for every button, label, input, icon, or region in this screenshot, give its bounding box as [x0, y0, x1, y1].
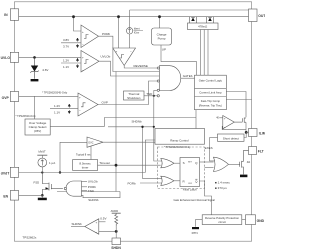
- or gate FLT: [214, 157, 229, 171]
- node dVdT junction: [41, 171, 43, 173]
- node TSD junction: [153, 95, 155, 97]
- wire REVERSE out: [124, 66, 157, 69]
- current source IdVdT: [38, 158, 47, 167]
- svg-text:OVC: OVC: [88, 141, 93, 144]
- ramp control box: [155, 129, 205, 145]
- svg-text:PORb: PORb: [102, 32, 111, 36]
- svg-text:CLR: CLR: [188, 183, 193, 185]
- pin FLT: [249, 147, 257, 155]
- wire nor stub UVLOb: [82, 181, 88, 183]
- pin SHDN: [112, 238, 121, 245]
- wire OUT sense drop to Isrc: [129, 10, 131, 28]
- wire gate drive 1: [200, 30, 202, 76]
- svg-text:IN: IN: [4, 13, 8, 17]
- wire EXES: [210, 138, 216, 161]
- wire IN to PORb: [74, 17, 82, 31]
- svg-text:FLT: FLT: [258, 149, 265, 153]
- svg-text:1.1V: 1.1V: [63, 65, 69, 69]
- svg-text:Short detect: Short detect: [223, 137, 239, 141]
- pin UVLO: [10, 52, 18, 62]
- svg-text:EN: EN: [3, 195, 8, 199]
- text layer part 2: small net and value labels: [42, 26, 193, 114]
- node shdn: [115, 230, 118, 233]
- wire stack to sense fet: [226, 92, 246, 118]
- wire UVLO pin net: [19, 56, 81, 58]
- wire shdn comp out: [71, 226, 85, 228]
- svg-text:IGsv: IGsv: [134, 30, 140, 34]
- wire timeout-to-gate low: [57, 191, 120, 193]
- svg-text:SHDNb: SHDNb: [72, 222, 83, 226]
- power FETs Q1 Q2: [188, 17, 219, 30]
- node R bus junction: [141, 126, 143, 128]
- svg-text:■ 1.4 msec: ■ 1.4 msec: [215, 180, 230, 184]
- transistor FSD discharge: [42, 173, 63, 196]
- node ILIM: [245, 131, 248, 134]
- svg-text:UVLO: UVLO: [1, 56, 11, 60]
- svg-text:* TPS26620/545-Only: * TPS26620/545-Only: [42, 90, 68, 94]
- wire OVP pin net: [19, 95, 78, 97]
- wire 0.5V ref stub: [99, 221, 106, 223]
- wire node to pin: [115, 231, 117, 238]
- wire OVC out: [103, 141, 155, 143]
- wire opamp feedback: [222, 126, 246, 130]
- bubble reverse input: [157, 67, 159, 69]
- svg-text:−: −: [224, 125, 226, 129]
- bubble tsd input: [157, 95, 159, 97]
- wire shdn minus: [99, 230, 116, 232]
- wire charge pump out: [161, 45, 197, 75]
- comparator SHDN: [85, 219, 99, 234]
- pin OVP: [10, 92, 18, 102]
- svg-text:(Reverse, Trip Thru): (Reverse, Trip Thru): [199, 103, 222, 107]
- dashed box fault latch option: [158, 147, 205, 189]
- wire latch Q out: [200, 161, 214, 163]
- node UVLO junction: [33, 56, 36, 59]
- short detect box: [218, 134, 245, 141]
- wire box to RTN: [196, 220, 203, 227]
- transistor FLT open drain: [240, 151, 249, 175]
- node rail junctions: [72, 15, 75, 18]
- wire clamp to ramp top bus: [50, 118, 196, 127]
- pin dVdT: [10, 167, 18, 177]
- svg-text:EXES: EXES: [205, 146, 213, 150]
- wire short detect out: [210, 137, 218, 139]
- svg-text:TSD: TSD: [146, 92, 153, 96]
- wire rail to charge pump: [159, 17, 161, 28]
- node EN junction: [41, 194, 44, 197]
- wire IN rail: [19, 16, 249, 18]
- wire fast-trip vout sense: [226, 99, 251, 101]
- or gate S: [161, 159, 174, 168]
- svg-text:Ramp Control: Ramp Control: [170, 139, 189, 143]
- svg-text:Pump: Pump: [158, 37, 166, 41]
- svg-text:Gate Enhancement Removal Signa: Gate Enhancement Removal Signal: [174, 198, 216, 202]
- wire resistor to node: [115, 227, 117, 232]
- svg-text:1.2V: 1.2V: [63, 59, 69, 63]
- wire nor stub TSD: [82, 189, 88, 191]
- svg-text:Fast-Trip Comp: Fast-Trip Comp: [201, 99, 221, 103]
- svg-text:4.6V: 4.6V: [42, 68, 48, 72]
- svg-text:−: −: [96, 230, 98, 234]
- resistor pullup: [115, 213, 118, 226]
- over voltage clamp select box: [25, 119, 50, 135]
- svg-text:Shutdown: Shutdown: [127, 96, 141, 100]
- wire PORb out: [99, 36, 160, 71]
- wire nor stub PORb: [82, 186, 88, 188]
- wire OVP threshold: [50, 108, 78, 110]
- wire gate drive mid: [203, 30, 205, 76]
- svg-text:−: −: [82, 68, 84, 72]
- svg-text:SHDN: SHDN: [111, 246, 121, 250]
- wire bus to bubble: [154, 89, 157, 91]
- svg-text:timer: timer: [82, 166, 89, 170]
- bubble ovp input: [157, 80, 159, 82]
- wire UVLOb threshold: [61, 62, 81, 64]
- svg-text:GND: GND: [257, 219, 265, 223]
- svg-text:UVLOb: UVLOb: [88, 180, 98, 184]
- wire stack to ramp: [195, 110, 197, 129]
- current source Isrc (reverse offset): [126, 28, 132, 34]
- svg-text:Ident: Ident: [134, 26, 140, 30]
- pin ILIM: [249, 129, 258, 137]
- wire UVLOb out: [99, 61, 159, 76]
- svg-text:−: −: [82, 43, 84, 47]
- text layer part 3: box texts: [29, 32, 240, 223]
- transistor sense fet: [234, 118, 246, 123]
- svg-text:+: +: [79, 95, 81, 99]
- svg-text:3.8V: 3.8V: [63, 38, 69, 42]
- ground (FSD): [38, 198, 47, 201]
- wire dVdT riser to ramp: [145, 140, 155, 173]
- svg-text:0.5V: 0.5V: [100, 216, 106, 220]
- wire ILIM pin: [246, 131, 248, 133]
- charge pump U1: [152, 28, 172, 45]
- svg-text:Gate Control Logic: Gate Control Logic: [199, 79, 223, 83]
- svg-text:* TPS26620/2640 Only: * TPS26620/2640 Only: [164, 145, 191, 149]
- svg-text:GATEb: GATEb: [183, 74, 193, 78]
- svg-text:UP: UP: [162, 48, 166, 52]
- wire box to GND pin: [242, 219, 246, 221]
- reverse polarity protection box: [202, 215, 242, 225]
- node timeout junction: [115, 164, 118, 167]
- op amp current limit: [223, 116, 235, 129]
- wire latch R bus: [143, 127, 163, 179]
- svg-text:SHDNb: SHDNb: [132, 120, 143, 124]
- svg-text:S: S: [183, 161, 185, 165]
- svg-text:1.2V: 1.2V: [54, 104, 60, 108]
- wire nor stub SHDNb: [81, 192, 120, 198]
- wire OVP out: [98, 81, 157, 105]
- comparator OVP: [78, 93, 98, 116]
- wire OVC to timer: [90, 146, 92, 160]
- wire EN pin net: [19, 194, 43, 196]
- svg-text:SHDNb: SHDNb: [88, 198, 99, 202]
- label Isrc fraction bar: [134, 29, 143, 31]
- pin GND: [246, 215, 256, 225]
- bubble nor output: [64, 187, 66, 189]
- svg-text:OUT: OUT: [258, 14, 265, 18]
- wire to ground: [41, 195, 43, 197]
- svg-text:FSD: FSD: [34, 181, 40, 185]
- ground (RTN): [192, 227, 199, 229]
- svg-text:+: +: [82, 55, 84, 59]
- wire SHDNb horizontal: [108, 126, 154, 128]
- svg-text:1.1V: 1.1V: [54, 111, 60, 115]
- wire Isrc to dVdT node: [41, 167, 43, 173]
- svg-text:* TPS26630-Only: * TPS26630-Only: [16, 114, 37, 118]
- svg-text:(45V): (45V): [34, 129, 41, 133]
- svg-text:+: +: [96, 220, 98, 224]
- wire gate drive 2: [207, 30, 209, 76]
- comparator REVERSE: [113, 48, 136, 66]
- svg-text:REVERSE: REVERSE: [134, 64, 148, 68]
- svg-text:TPS2662x: TPS2662x: [22, 235, 37, 239]
- node SHDNb junction: [153, 126, 155, 128]
- wire opamp plus stub: [219, 117, 223, 119]
- wire latch Q to flt or: [205, 167, 214, 169]
- svg-text:■ 373 μs: ■ 373 μs: [215, 186, 227, 190]
- svg-text:−: −: [79, 108, 81, 112]
- svg-text:+: +: [82, 30, 84, 34]
- node PORb bus: [115, 72, 117, 192]
- wire Isrc to REVERSE: [129, 34, 131, 48]
- thermal shutdown box: [124, 91, 145, 100]
- svg-text:+: +: [224, 116, 226, 120]
- comparator UVLOb: [81, 51, 99, 73]
- svg-text:Fault Latch: Fault Latch: [183, 187, 197, 191]
- wire PORb threshold: [61, 42, 81, 44]
- wire SHDNb bus vertical: [154, 90, 162, 161]
- svg-text:OVP: OVP: [102, 100, 108, 104]
- svg-text:Current Limit Amp: Current Limit Amp: [199, 91, 222, 95]
- svg-text:OVP: OVP: [2, 96, 10, 100]
- svg-text:AVDD: AVDD: [111, 209, 119, 213]
- or gate R: [161, 176, 174, 185]
- svg-text:ILIM: ILIM: [259, 132, 265, 136]
- wire GATEb: [181, 77, 195, 79]
- svg-text:Timeout: Timeout: [99, 161, 110, 165]
- and gate gate-logic: [159, 66, 180, 91]
- node OVC riser: [59, 171, 61, 173]
- wire S to latch: [174, 162, 180, 164]
- supply AVDD shdn: [112, 212, 121, 214]
- latch U2: [180, 158, 200, 187]
- wire stub R PORb: [140, 182, 162, 184]
- svg-text:4Ω: 4Ω: [247, 160, 250, 164]
- qbar overline: [195, 178, 197, 180]
- nor gate dvdt-disable: [66, 181, 82, 196]
- svg-text:TSD: TSD: [88, 189, 95, 193]
- pin OUT: [249, 9, 258, 22]
- wire latch Qb out: [200, 181, 212, 215]
- ground (FLT fet): [240, 175, 247, 178]
- comparator OVC: [87, 137, 103, 147]
- zener 4.6V: [30, 57, 38, 78]
- text layer part 1: [1, 13, 267, 250]
- pin EN: [10, 191, 18, 201]
- wire OVP to clamp box: [34, 96, 36, 119]
- wire flt or out: [229, 163, 240, 165]
- comparator PORb: [81, 25, 99, 48]
- pin IN: [10, 9, 18, 20]
- bubble shdnb-bus input: [157, 89, 159, 91]
- svg-text:RTN: RTN: [192, 231, 198, 235]
- threshold arrows (filled): [68, 38, 79, 114]
- svg-text:IdVdT: IdVdT: [38, 150, 46, 154]
- svg-text:−: −: [130, 50, 132, 54]
- wire TSD: [144, 95, 157, 97]
- ground (zener): [31, 79, 39, 81]
- wire OVC upper input from dVdT riser: [60, 142, 87, 172]
- wire R to latch: [174, 180, 180, 182]
- wire OUT sense top: [130, 9, 249, 11]
- svg-text:1 μA: 1 μA: [49, 161, 55, 165]
- gate control logic stack: [195, 75, 227, 110]
- svg-text:+: +: [116, 50, 118, 54]
- wire IN to REVERSE: [118, 17, 120, 48]
- wire sense fet to ILIM node: [245, 122, 247, 132]
- svg-text:Typical 8 ms: Typical 8 ms: [76, 152, 91, 156]
- border frame: [14, 2, 251, 241]
- supply AVDD dVdT: [41, 155, 43, 158]
- svg-text:3.7V: 3.7V: [63, 45, 69, 49]
- svg-text:PORb: PORb: [128, 181, 137, 185]
- wire Timeout: [98, 164, 161, 166]
- svg-text:478mΩ: 478mΩ: [198, 25, 207, 29]
- wire dVdT net: [19, 172, 146, 174]
- svg-text:dVdT: dVdT: [1, 171, 10, 175]
- wire ILIM to short detect: [244, 132, 246, 137]
- svg-text:circuit: circuit: [218, 220, 226, 224]
- timer box 8ms: [73, 160, 98, 171]
- svg-text:UVLOb: UVLOb: [101, 55, 111, 59]
